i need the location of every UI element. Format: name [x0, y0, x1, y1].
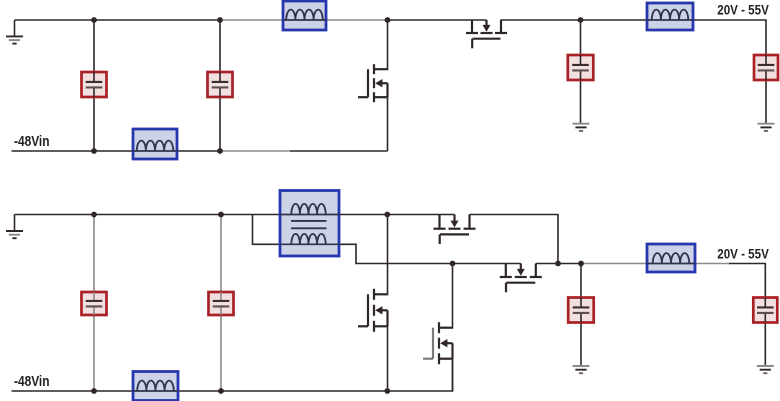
wire C5 bottom [93, 315, 95, 392]
node A4 [578, 17, 584, 23]
ground [573, 124, 590, 131]
wire C5 top [93, 215, 95, 293]
inductor L5 [647, 244, 695, 272]
wire mid rail to Q5 [453, 263, 521, 265]
transistor Q6 [423, 264, 453, 392]
node A1 [91, 17, 97, 23]
wire bottom rail left 2 [12, 390, 134, 392]
wire top rail left 2 [15, 214, 281, 216]
wire transformer bottom right lead [339, 244, 453, 263]
wire transformer top right lead [339, 214, 455, 216]
wire bottom rail to Q6 source [387, 359, 452, 391]
wire Q5 to output node [536, 263, 581, 265]
inductor L1 [133, 129, 177, 159]
svg-text:20V - 55V: 20V - 55V [717, 246, 769, 261]
capacitor C4 [754, 55, 778, 80]
wire inductor to corner gray [695, 263, 730, 265]
wire C8 to ground [764, 322, 766, 366]
capacitor C2 [208, 72, 233, 97]
node B3 [384, 212, 390, 218]
ground [758, 124, 775, 131]
transistor Q2 [466, 20, 507, 48]
wire bottom rail to fet source [290, 150, 388, 152]
wire top rail gray 2 [326, 19, 388, 21]
wire bottom rail gray [220, 150, 290, 152]
inductor L4 [133, 372, 178, 401]
node B6 [578, 261, 584, 267]
ground [757, 366, 774, 373]
capacitor C3 [568, 55, 594, 80]
transistor Q5 [500, 264, 542, 293]
transistor Q3 [358, 215, 388, 392]
wire C6 bottom [220, 315, 222, 392]
wire corner to C8 [729, 264, 765, 298]
wire C3 bottom [580, 80, 582, 125]
wire sync fet to output node [501, 19, 648, 21]
node A6 [217, 148, 223, 154]
wire transformer bottom left lead [253, 215, 281, 245]
wire output node to inductor [581, 263, 648, 265]
transistor Q1 [358, 20, 388, 151]
wire bottom rail mid [177, 150, 221, 152]
wire C7 to ground [580, 322, 582, 366]
wire C7 branch [580, 264, 582, 298]
wire top rail to sync fet [388, 19, 487, 21]
wire output inductor to corner [693, 20, 767, 56]
node B7 [91, 388, 97, 394]
wire Q4 right link [470, 215, 559, 264]
transformer T1 [280, 191, 339, 257]
wire top rail left [15, 19, 221, 21]
node B4 [450, 261, 456, 267]
node A2 [217, 17, 223, 23]
capacitor C8 [753, 298, 777, 323]
node B9 [384, 388, 390, 394]
wire C2 top [219, 20, 221, 73]
node A3 [385, 17, 391, 23]
capacitor C7 [568, 298, 594, 323]
wire bottom rail left [12, 150, 134, 152]
inductor L3 [647, 3, 693, 30]
inductor L2 [283, 1, 326, 30]
capacitor C1 [82, 72, 107, 97]
node B1 [91, 212, 97, 218]
wire C1 bottom [93, 97, 95, 152]
wire C4 bottom [765, 80, 767, 125]
ground [573, 366, 590, 373]
ground [6, 215, 23, 239]
wire C3 top [580, 20, 582, 56]
capacitor C5 [82, 292, 107, 315]
wire C1 top [93, 20, 95, 73]
capacitor C6 [209, 292, 234, 315]
wire bottom rail mid 2 [178, 390, 388, 392]
node B2 [218, 212, 224, 218]
svg-text:-48Vin: -48Vin [14, 133, 50, 150]
svg-text:-48Vin: -48Vin [14, 373, 50, 390]
wire top rail gray 1 [220, 19, 284, 21]
ground [6, 20, 23, 44]
node A5 [91, 148, 97, 154]
svg-text:20V - 55V: 20V - 55V [717, 3, 769, 18]
transistor Q4 [434, 215, 476, 245]
wire C2 bottom [219, 97, 221, 152]
node B5 [555, 261, 561, 267]
node B8 [218, 388, 224, 394]
wire C6 top [220, 215, 222, 293]
